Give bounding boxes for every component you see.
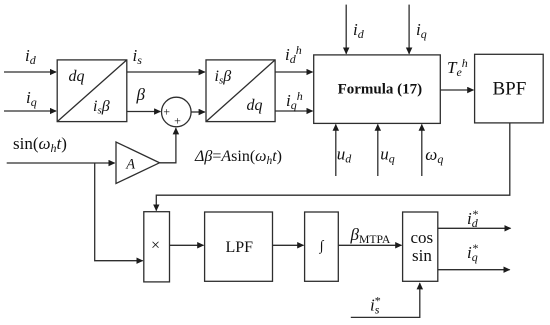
wire multiplier to LPF [170, 244, 204, 246]
svg-text:id: id [353, 20, 365, 41]
svg-text:sin(ωht): sin(ωht) [13, 134, 67, 155]
svg-text:ud: ud [337, 145, 353, 166]
wire T_e_h [440, 89, 473, 91]
summing junction [162, 97, 192, 127]
svg-text:+: + [163, 105, 170, 119]
wire i_q top input [408, 5, 410, 54]
wire i_d* output [438, 227, 511, 229]
svg-text:A: A [125, 157, 135, 173]
svg-text:id*: id* [467, 207, 479, 230]
svg-text:+: + [174, 113, 181, 127]
wire i_d top input [345, 5, 347, 54]
svg-text:is*: is* [370, 294, 381, 317]
wire omega_q bottom input [421, 125, 423, 176]
wire i_s [127, 71, 205, 73]
wire sin input to amplifier [7, 162, 115, 164]
block LPF [205, 212, 273, 281]
block dq to i_s-beta transform [57, 60, 127, 122]
svg-text:∫: ∫ [319, 239, 325, 254]
svg-text:uq: uq [380, 145, 395, 166]
svg-text:Formula (17): Formula (17) [338, 82, 423, 98]
wire LPF to integrator [273, 244, 304, 246]
block cos sin [403, 212, 438, 281]
amplifier A triangle [116, 142, 160, 184]
svg-text:LPF: LPF [226, 239, 254, 256]
block i_s-beta to dq inverse transform [206, 60, 275, 122]
svg-text:ωq: ωq [425, 145, 443, 166]
svg-text:Teh: Teh [447, 56, 468, 79]
wire i_q input [4, 110, 56, 112]
wire BPF feedback to multiplier [156, 123, 510, 211]
svg-text:×: × [151, 237, 160, 254]
svg-text:id: id [25, 46, 37, 67]
svg-text:Δβ=Asin(ωht): Δβ=Asin(ωht) [194, 148, 282, 167]
block Formula (17) [314, 55, 441, 124]
svg-text:dq: dq [69, 68, 85, 85]
block multiplier [144, 212, 170, 282]
block integrator [305, 212, 339, 281]
svg-text:BPF: BPF [493, 79, 527, 100]
svg-text:iq*: iq* [467, 241, 479, 264]
wire beta_MTPA integrator to cos sin [338, 244, 401, 246]
svg-text:iqh: iqh [286, 89, 303, 112]
wire i_q* output [438, 269, 510, 271]
wire sum to block2 [191, 111, 205, 113]
wire i_q_h [275, 110, 312, 112]
wire amplifier to summing junction [160, 128, 176, 163]
wire branch down to multiplier [95, 163, 143, 261]
wire i_s* input [351, 283, 420, 317]
svg-text:isβ: isβ [93, 98, 110, 117]
svg-text:βMTPA: βMTPA [350, 225, 391, 246]
block BPF [475, 54, 544, 123]
svg-text:β: β [136, 85, 146, 104]
svg-text:iq: iq [416, 20, 427, 41]
svg-text:dq: dq [247, 97, 263, 114]
wire beta [127, 111, 161, 113]
svg-text:cos: cos [411, 228, 434, 247]
svg-text:iq: iq [26, 88, 37, 109]
svg-text:sin: sin [412, 246, 432, 265]
svg-text:is: is [133, 46, 143, 67]
wire u_d bottom input [335, 125, 337, 176]
wire i_d input [4, 71, 56, 73]
svg-text:idh: idh [285, 43, 302, 66]
svg-text:isβ: isβ [215, 68, 232, 87]
wire u_q bottom input [377, 125, 379, 176]
wire i_d_h [275, 71, 312, 73]
